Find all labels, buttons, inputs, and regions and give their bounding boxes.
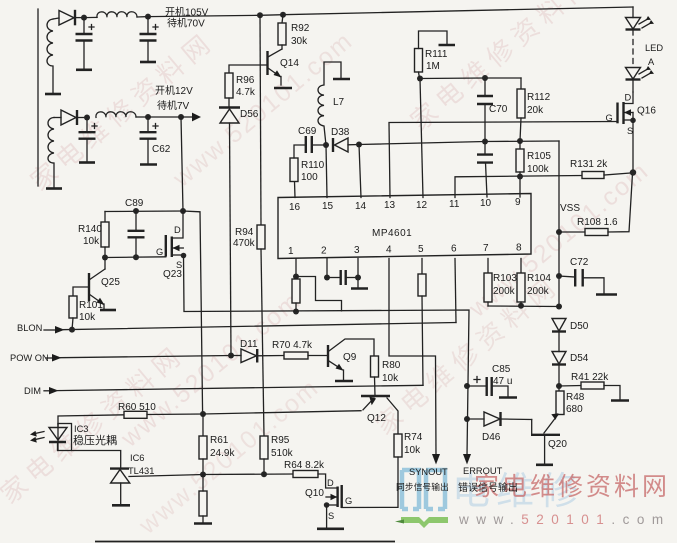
resistor R105 bbox=[519, 141, 521, 149]
svg-text:IC3: IC3 bbox=[74, 424, 88, 434]
svg-text:D38: D38 bbox=[331, 127, 350, 138]
svg-text:C62: C62 bbox=[152, 144, 171, 155]
wire R60 row bbox=[58, 415, 124, 424]
node bbox=[257, 12, 263, 18]
wire DIM row bbox=[44, 390, 50, 392]
wire arrow ERROUT bbox=[463, 454, 471, 465]
ground bbox=[112, 504, 130, 507]
node bbox=[556, 304, 562, 310]
node bbox=[133, 208, 139, 214]
svg-text:Q9: Q9 bbox=[343, 352, 357, 363]
resistor R80 bbox=[371, 356, 379, 377]
wire gate rail bbox=[105, 256, 166, 259]
node 12V junction bbox=[178, 114, 184, 120]
svg-text:D54: D54 bbox=[570, 353, 589, 364]
svg-text:开机12V: 开机12V bbox=[155, 84, 193, 97]
node bbox=[133, 254, 139, 260]
wire pin15 riser bbox=[326, 145, 327, 198]
svg-text:5: 5 bbox=[418, 244, 424, 255]
svg-text:30k: 30k bbox=[291, 36, 308, 47]
wire 12V rail bbox=[148, 116, 181, 118]
ground bbox=[79, 161, 95, 164]
ground bbox=[317, 527, 344, 530]
svg-text:13: 13 bbox=[384, 200, 396, 211]
resistor on pin 5 bbox=[421, 259, 423, 275]
svg-text:15: 15 bbox=[322, 201, 334, 212]
svg-text:470k: 470k bbox=[233, 238, 256, 249]
logo green book bbox=[401, 517, 448, 528]
wire pin1 wrap bbox=[296, 277, 342, 311]
ground bbox=[536, 463, 553, 466]
transistor Q10 (N-MOSFET) bbox=[318, 474, 338, 488]
svg-text:100: 100 bbox=[301, 172, 318, 183]
svg-text:R105: R105 bbox=[527, 151, 551, 162]
resistor R101 bbox=[69, 296, 77, 318]
node bbox=[482, 75, 488, 81]
svg-text:错误信号输出: 错误信号输出 bbox=[458, 481, 518, 494]
LED 2 bbox=[626, 68, 641, 80]
svg-text:200k: 200k bbox=[527, 286, 550, 297]
wire Q23 drain node down to R60 row bbox=[183, 211, 203, 414]
resistor R74 bbox=[394, 434, 402, 457]
wire bbox=[75, 17, 84, 19]
svg-text:R80: R80 bbox=[382, 360, 401, 371]
svg-text:10: 10 bbox=[480, 198, 492, 209]
wire pin11 riser + row176 bbox=[455, 176, 582, 198]
resistor R103 (pin7) bbox=[487, 259, 489, 274]
svg-text:D56: D56 bbox=[240, 109, 259, 120]
svg-text:10k: 10k bbox=[404, 445, 421, 456]
svg-text:S: S bbox=[328, 511, 334, 521]
wire bbox=[77, 117, 87, 119]
node bbox=[464, 416, 470, 422]
svg-text:G: G bbox=[606, 113, 613, 123]
svg-text:R70 4.7k: R70 4.7k bbox=[272, 340, 313, 351]
wire Q25 base bbox=[73, 287, 89, 296]
diode rectifier D (105V) bbox=[59, 11, 74, 26]
svg-text:D11: D11 bbox=[240, 339, 258, 350]
svg-text:A: A bbox=[648, 57, 655, 67]
ground bbox=[274, 87, 292, 90]
svg-text:Q16: Q16 bbox=[637, 106, 656, 117]
svg-text:14: 14 bbox=[355, 201, 367, 212]
node bbox=[517, 174, 523, 180]
svg-text:D: D bbox=[327, 478, 334, 488]
diode D11 bbox=[231, 355, 241, 357]
transistor Q12 (PNP sideways) bbox=[361, 395, 390, 397]
diode D38 bbox=[332, 138, 334, 152]
svg-text:4.7k: 4.7k bbox=[236, 87, 256, 98]
node bbox=[145, 114, 151, 120]
svg-text:R48: R48 bbox=[566, 392, 585, 403]
resistor R96 bbox=[225, 73, 233, 98]
svg-text:Q23: Q23 bbox=[163, 269, 182, 280]
svg-text:8: 8 bbox=[516, 243, 522, 254]
svg-text:D: D bbox=[625, 93, 632, 103]
ground bbox=[596, 293, 617, 296]
ground bbox=[140, 163, 157, 166]
svg-text:12: 12 bbox=[416, 200, 428, 211]
IC6 TL431 bbox=[110, 467, 129, 469]
ground bbox=[46, 187, 62, 190]
wire bbox=[53, 18, 59, 19]
svg-text:ERROUT: ERROUT bbox=[463, 466, 503, 476]
svg-text:Q12: Q12 bbox=[367, 413, 386, 424]
capacitor C69 bbox=[306, 136, 312, 153]
svg-text:7: 7 bbox=[483, 243, 489, 254]
capacitor filter C2+ bbox=[147, 17, 149, 34]
svg-text:10k: 10k bbox=[382, 373, 399, 384]
svg-text:D: D bbox=[174, 225, 181, 235]
capacitor pin2-3 bbox=[327, 277, 341, 279]
transistor Q14 (NPN) bbox=[266, 51, 268, 75]
wire pin13 riser + G line bbox=[389, 122, 618, 198]
svg-text:R110: R110 bbox=[301, 160, 325, 171]
logo blue book brackets bbox=[402, 470, 445, 509]
inductor L7 bbox=[318, 62, 341, 145]
svg-text:10k: 10k bbox=[83, 236, 100, 247]
resistor R94 bbox=[260, 15, 261, 225]
node bbox=[102, 255, 108, 261]
resistor R110 (pin16) bbox=[294, 182, 297, 198]
resistor R61 bbox=[202, 414, 204, 436]
wire pin14 riser bbox=[359, 145, 361, 198]
resistor R131 bbox=[582, 172, 604, 179]
wire POW ON row bbox=[46, 357, 53, 359]
svg-text:47 u: 47 u bbox=[493, 376, 512, 387]
resistor R48 bbox=[556, 391, 564, 415]
node bbox=[280, 12, 286, 18]
resistor R104 (pin8) bbox=[520, 259, 522, 274]
svg-text:L7: L7 bbox=[333, 97, 345, 108]
resistor R95 bbox=[260, 436, 268, 459]
diode D50 bbox=[552, 319, 566, 332]
ground bbox=[439, 44, 456, 47]
node bbox=[482, 139, 488, 145]
svg-text:稳压光耦: 稳压光耦 bbox=[73, 433, 117, 447]
svg-text:C85: C85 bbox=[492, 364, 511, 375]
ground bbox=[611, 399, 629, 402]
node 105V junction bbox=[81, 15, 87, 21]
diode rectifier D (12V) bbox=[61, 110, 76, 125]
svg-text:R104: R104 bbox=[527, 273, 551, 284]
wire C89 top rail bbox=[105, 210, 183, 213]
ground bbox=[499, 396, 517, 399]
svg-text:R140: R140 bbox=[78, 224, 102, 235]
svg-text:LED: LED bbox=[645, 43, 663, 53]
svg-text:DIM: DIM bbox=[24, 386, 41, 396]
ground bbox=[45, 93, 61, 96]
wire pin9 riser bbox=[519, 177, 521, 198]
wire row144 bbox=[359, 141, 559, 145]
capacitor C72 bbox=[556, 273, 562, 279]
node bbox=[556, 383, 562, 389]
wire VSS column bbox=[558, 141, 560, 307]
svg-text:POW ON: POW ON bbox=[10, 353, 49, 363]
resistor R92 bbox=[282, 15, 283, 23]
svg-text:10k: 10k bbox=[79, 312, 96, 323]
svg-text:3: 3 bbox=[354, 245, 360, 256]
wire arrow 12V out bbox=[192, 113, 201, 122]
wire 12V down to C89 line bbox=[181, 117, 183, 211]
svg-text:S: S bbox=[627, 126, 633, 136]
op-amp U1 MP4601 IC box bbox=[278, 194, 531, 259]
svg-text:R96: R96 bbox=[236, 75, 255, 86]
svg-text:R41 22k: R41 22k bbox=[571, 372, 609, 383]
svg-text:BLON: BLON bbox=[17, 323, 42, 333]
resistor R112 bbox=[520, 78, 522, 89]
wire bbox=[54, 117, 61, 119]
optocoupler IC3 bbox=[58, 424, 72, 451]
ground bbox=[100, 309, 116, 312]
wire BLON row bbox=[44, 329, 56, 331]
svg-text:R112: R112 bbox=[527, 92, 551, 103]
svg-text:680: 680 bbox=[566, 404, 583, 415]
svg-text:R74: R74 bbox=[404, 432, 423, 443]
ground bbox=[335, 380, 353, 383]
resistor below R61 bbox=[199, 491, 207, 516]
svg-text:100k: 100k bbox=[527, 164, 550, 175]
ground bbox=[333, 78, 350, 81]
capacitor C89 bbox=[135, 211, 137, 231]
svg-text:Q20: Q20 bbox=[548, 439, 567, 450]
svg-text:MP4601: MP4601 bbox=[372, 228, 412, 239]
svg-text:C70: C70 bbox=[489, 104, 508, 115]
capacitor C (pin10) bbox=[484, 142, 486, 155]
svg-text:4: 4 bbox=[386, 245, 392, 256]
svg-text:IC6: IC6 bbox=[130, 453, 144, 463]
svg-text:R111: R111 bbox=[425, 49, 448, 60]
svg-text:待机7V: 待机7V bbox=[157, 99, 190, 112]
svg-text:1M: 1M bbox=[426, 61, 440, 72]
node pin14 bbox=[356, 142, 362, 148]
wire dashed LED string bbox=[632, 30, 634, 67]
svg-text:www.520101.com: www.520101.com bbox=[458, 512, 671, 527]
ground bbox=[140, 61, 156, 64]
wire left border bbox=[37, 9, 39, 186]
svg-text:TL431: TL431 bbox=[128, 466, 154, 476]
resistor R108 bbox=[559, 231, 585, 233]
LED 1 bbox=[626, 18, 641, 30]
svg-text:200k: 200k bbox=[493, 286, 516, 297]
capacitor C85 bbox=[464, 383, 470, 389]
svg-text:R101: R101 bbox=[79, 300, 103, 311]
svg-text:VSS: VSS bbox=[560, 203, 580, 214]
resistor on pin 1 bbox=[295, 259, 297, 278]
svg-text:D46: D46 bbox=[482, 432, 501, 443]
wire 105V rail bbox=[148, 15, 260, 16]
resistor R64 bbox=[293, 471, 318, 478]
wire TL431 ref row bbox=[129, 475, 203, 477]
diode D54 bbox=[558, 332, 560, 352]
wire Q23 source rail to ERROUT bbox=[184, 310, 469, 456]
resistor R41 bbox=[559, 385, 581, 388]
inductor L (105V) bbox=[97, 12, 137, 18]
svg-text:R95: R95 bbox=[271, 435, 290, 446]
resistor R70 bbox=[284, 352, 308, 359]
svg-text:C69: C69 bbox=[298, 126, 317, 137]
svg-text:510k: 510k bbox=[271, 448, 294, 459]
svg-text:Q14: Q14 bbox=[280, 58, 299, 69]
node LED/R131/R108 bbox=[630, 169, 636, 175]
capacitor filter C+ bbox=[83, 18, 85, 34]
wire row78 bbox=[420, 77, 521, 80]
wire ref row to R64 bbox=[203, 473, 293, 476]
svg-text:11: 11 bbox=[449, 199, 460, 210]
wire Q14 base bbox=[229, 65, 268, 73]
svg-text:同步信号输出: 同步信号输出 bbox=[396, 481, 449, 492]
svg-text:C72: C72 bbox=[570, 257, 589, 268]
wire opto to TL431 bbox=[72, 451, 121, 469]
capacitor C70 bbox=[484, 78, 486, 96]
node bbox=[180, 208, 186, 214]
node bbox=[84, 115, 90, 121]
resistor R140 bbox=[104, 212, 106, 223]
svg-text:16: 16 bbox=[289, 202, 301, 213]
node bbox=[145, 14, 151, 20]
svg-text:R61: R61 bbox=[210, 435, 229, 446]
svg-text:R131 2k: R131 2k bbox=[570, 159, 608, 170]
svg-text:SYNOUT: SYNOUT bbox=[409, 467, 448, 477]
capacitor filter C3+ bbox=[86, 118, 88, 133]
svg-text:开机105V: 开机105V bbox=[165, 6, 209, 19]
svg-text:R92: R92 bbox=[291, 23, 310, 34]
transistor Q9 (NPN) bbox=[327, 345, 329, 367]
svg-text:2: 2 bbox=[321, 246, 327, 257]
svg-text:D50: D50 bbox=[570, 321, 589, 332]
transistor Q16 (P-MOSFET) bbox=[616, 103, 618, 124]
svg-text:1: 1 bbox=[288, 246, 294, 257]
svg-text:C89: C89 bbox=[125, 198, 144, 209]
wire pin3 + ground bbox=[357, 259, 359, 289]
inductor L2 (12V) bbox=[96, 112, 136, 118]
ground bbox=[194, 522, 212, 525]
resistor R111 (pin12) bbox=[420, 79, 423, 198]
svg-text:20k: 20k bbox=[527, 105, 544, 116]
diode D56 bbox=[219, 106, 240, 108]
resistor R60 bbox=[124, 411, 147, 418]
svg-text:R94: R94 bbox=[235, 227, 254, 238]
transformer winding T1b bbox=[48, 118, 54, 189]
wire arrow SYNOUT bbox=[432, 454, 440, 465]
svg-text:Q25: Q25 bbox=[101, 277, 120, 288]
transistor Q23 (P-MOSFET) bbox=[165, 235, 167, 257]
wire Q23 source down bbox=[183, 256, 186, 311]
transistor Q25 (NPN) bbox=[88, 273, 90, 301]
svg-text:Q10: Q10 bbox=[305, 488, 324, 499]
svg-text:R64 8.2k: R64 8.2k bbox=[284, 460, 325, 471]
capacitor C62 bbox=[147, 117, 149, 132]
svg-text:G: G bbox=[156, 247, 163, 257]
wire bottom border bbox=[95, 541, 395, 543]
node bbox=[517, 138, 523, 144]
node pin15 bbox=[323, 142, 329, 148]
LED A group bbox=[632, 7, 634, 18]
diode D46 bbox=[467, 418, 484, 420]
svg-text:9: 9 bbox=[515, 197, 521, 208]
wire R103/R104 bottoms to VSS column bbox=[488, 305, 559, 308]
transistor Q20 (NPN sideways) bbox=[531, 420, 533, 435]
wire pin6 to BLON bbox=[455, 259, 456, 323]
wire pin2 bbox=[326, 259, 328, 278]
svg-text:R108 1.6: R108 1.6 bbox=[577, 217, 618, 228]
wire pin4 to SYNOUT bbox=[389, 259, 436, 457]
svg-text:R103: R103 bbox=[493, 273, 517, 284]
svg-text:待机70V: 待机70V bbox=[167, 17, 205, 30]
svg-text:24.9k: 24.9k bbox=[210, 448, 235, 459]
svg-text:R60 510: R60 510 bbox=[118, 402, 156, 413]
node bbox=[556, 229, 562, 235]
transformer winding T1a bbox=[47, 19, 53, 93]
ground bbox=[76, 69, 92, 72]
svg-text:G: G bbox=[345, 496, 352, 506]
svg-text:6: 6 bbox=[451, 244, 457, 255]
